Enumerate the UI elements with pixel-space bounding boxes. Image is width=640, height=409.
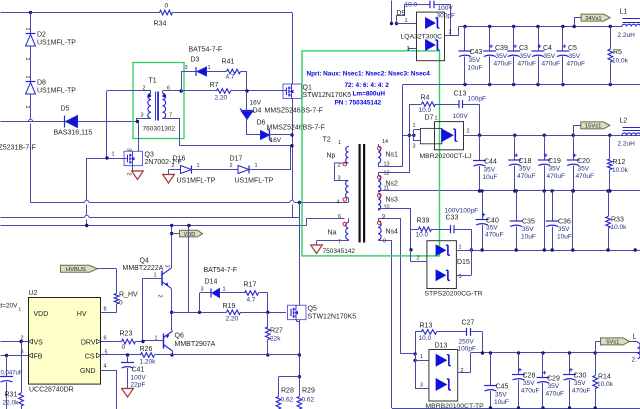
rectifier D15 STPS20200CG-TR — [427, 241, 457, 289]
IC U2 UCC28740DR — [29, 298, 101, 385]
wire 24Vs1 flag lead — [574, 17, 581, 19]
svg-text:1: 1 — [420, 354, 423, 360]
svg-text:10.0k: 10.0k — [612, 167, 629, 174]
capacitor C39 — [489, 27, 491, 52]
svg-text:470uF: 470uF — [547, 173, 565, 180]
wire Q1 source down — [292, 99, 294, 201]
svg-text:R33: R33 — [611, 217, 624, 224]
svg-text:3: 3 — [141, 113, 144, 119]
svg-text:470uF: 470uF — [572, 388, 590, 395]
svg-text:R27: R27 — [270, 328, 283, 335]
svg-text:14: 14 — [382, 139, 388, 145]
wire Q6 base — [143, 340, 164, 342]
svg-text:35V: 35V — [469, 57, 481, 64]
resistor R17 — [220, 292, 245, 294]
wire snubber cap to output — [434, 5, 451, 36]
svg-text:10.0k: 10.0k — [597, 381, 614, 388]
svg-text:BAS316,115: BAS316,115 — [54, 130, 93, 137]
svg-text:8: 8 — [383, 239, 386, 245]
svg-text:4: 4 — [104, 364, 107, 370]
svg-text:1: 1 — [338, 140, 341, 146]
wire Q3 source to ground — [132, 166, 134, 171]
svg-text:L1: L1 — [620, 9, 628, 16]
node 10V return junctions — [470, 248, 473, 251]
wire Q3 gate line — [87, 158, 128, 160]
svg-text:6: 6 — [104, 336, 107, 342]
resistor R39 — [411, 229, 419, 231]
capacitor C30 — [569, 353, 571, 375]
svg-text:C5: C5 — [568, 45, 577, 52]
resistor R31 — [21, 342, 23, 394]
wire CS line — [101, 354, 141, 356]
svg-text:35V: 35V — [523, 380, 535, 387]
node rail A junction — [298, 201, 301, 204]
svg-text:16V: 16V — [270, 137, 282, 144]
transistor Q6 MMBT2907A — [163, 334, 165, 349]
wire D9 pin3 stub — [408, 48, 417, 50]
capacitor C4 — [538, 27, 540, 52]
transistor Q4 MMBT2222A — [171, 266, 173, 269]
svg-text:0,047uF: 0,047uF — [1, 371, 23, 377]
svg-text:C20: C20 — [577, 158, 590, 165]
node FB divider junction — [5, 354, 8, 357]
svg-text:1: 1 — [197, 163, 200, 169]
wire snubber cap branch — [397, 5, 431, 24]
wire Q3 drain riser — [138, 122, 140, 152]
wire snubber resistor lead from top — [391, 1, 393, 24]
wire T2 pin13 to 24V return — [378, 163, 380, 167]
net flag HVBUS — [61, 265, 98, 272]
svg-text:Ns4: Ns4 — [386, 229, 399, 236]
svg-text:C33: C33 — [446, 215, 459, 222]
svg-text:Q5: Q5 — [308, 306, 317, 313]
capacitor C20 — [573, 135, 575, 160]
wire D9 pin2 output — [445, 35, 459, 37]
node 5V rail junctions — [481, 351, 484, 354]
svg-text:35V: 35V — [578, 166, 590, 173]
node STPS anode junction — [409, 248, 412, 251]
capacitor C36 — [552, 191, 554, 221]
svg-text:3: 3 — [420, 383, 423, 389]
svg-text:R29: R29 — [302, 388, 315, 395]
svg-text:35V: 35V — [520, 53, 532, 60]
svg-text:3: 3 — [21, 350, 24, 356]
wire C13 to 15V rail — [463, 104, 480, 106]
svg-text:VDD: VDD — [34, 311, 49, 318]
svg-text:470uF: 470uF — [546, 391, 564, 398]
resistor R13 — [415, 331, 421, 333]
transistor Q1 STW12N170K5 — [283, 84, 302, 99]
node bottom rail junctions — [489, 406, 492, 409]
wire MBR pin2 out — [464, 135, 480, 137]
svg-text:35V: 35V — [548, 383, 560, 390]
wire R17 riser right — [267, 293, 269, 312]
svg-text:35V: 35V — [558, 226, 570, 233]
svg-text:15Vs1: 15Vs1 — [585, 124, 601, 130]
svg-text:2.20: 2.20 — [215, 95, 228, 102]
svg-text:C27: C27 — [462, 320, 475, 327]
wire 5V rail — [471, 352, 640, 354]
wire VS input — [1, 341, 29, 343]
wire rail link to Q5 drain — [299, 203, 301, 306]
svg-text:35V: 35V — [496, 53, 508, 60]
svg-text:C36: C36 — [558, 219, 571, 226]
inductor L2 — [622, 133, 640, 135]
svg-text:VDD: VDD — [184, 232, 196, 238]
svg-text:D16: D16 — [173, 156, 186, 163]
node Q1 source primary junction — [290, 144, 293, 147]
svg-text:L2: L2 — [620, 118, 628, 125]
svg-text:R17: R17 — [244, 282, 257, 289]
node D13 anode junctions — [413, 352, 416, 355]
svg-text:R19: R19 — [223, 303, 236, 310]
svg-text:4.7: 4.7 — [247, 297, 256, 304]
svg-text:22.0k: 22.0k — [3, 400, 20, 407]
svg-text:2: 2 — [172, 163, 175, 169]
resistor R4 — [409, 104, 421, 106]
resistor R19 — [227, 310, 241, 315]
svg-text:C41: C41 — [132, 367, 145, 374]
wire D16-D17 — [192, 169, 239, 171]
resistor R41 — [207, 71, 227, 73]
node rail C junction — [187, 224, 190, 227]
wire gate drive line — [172, 312, 227, 314]
svg-text:1: 1 — [154, 273, 157, 279]
svg-text:72: 4: 6: 4: 4: 2: 72: 4: 6: 4: 4: 2 — [345, 82, 390, 89]
wire T2 pin7 to ground — [348, 240, 350, 242]
wire HV bus lead — [98, 268, 117, 270]
svg-text:0.62: 0.62 — [302, 397, 315, 404]
svg-text:100V: 100V — [453, 113, 469, 120]
svg-text:0.62: 0.62 — [281, 397, 294, 404]
svg-text:1.20k: 1.20k — [140, 359, 157, 366]
svg-text:MBR20200CT-LJ: MBR20200CT-LJ — [420, 153, 472, 160]
svg-text:Na: Na — [328, 230, 337, 237]
zener diode D4 16V — [240, 109, 254, 113]
svg-text:470uF: 470uF — [517, 173, 535, 180]
capacitor C43 — [464, 27, 466, 52]
capacitor C40 — [482, 191, 484, 220]
svg-text:10: 10 — [384, 205, 390, 211]
svg-text:US1MFL-TP: US1MFL-TP — [235, 178, 274, 185]
svg-text:1: 1 — [24, 76, 30, 79]
diode D8 — [26, 81, 36, 83]
node VDD flag tap — [170, 232, 173, 235]
wire D6 cathode to source — [270, 134, 293, 136]
wire D4 to D6 — [246, 119, 248, 135]
svg-text:35V: 35V — [495, 392, 507, 399]
node gate node junction — [266, 311, 269, 314]
wire D14 branch riser left — [199, 293, 201, 312]
svg-text:3: 3 — [201, 287, 204, 293]
svg-text:R41: R41 — [222, 59, 235, 66]
svg-text:R12: R12 — [613, 159, 626, 166]
capacitor C28 — [518, 353, 520, 375]
svg-text:2.: 2. — [632, 357, 638, 364]
svg-text:C44: C44 — [484, 159, 497, 166]
svg-text:R31: R31 — [5, 392, 18, 399]
svg-text:1: 1 — [112, 152, 115, 158]
svg-text:12: 12 — [384, 171, 390, 177]
wire T2 pin8 to bottom rail — [378, 239, 380, 242]
wire C27 to 5V rail — [471, 331, 483, 333]
svg-text:470uF: 470uF — [485, 232, 503, 239]
resistor R27 — [267, 312, 269, 327]
wire ground rail B — [1, 217, 85, 219]
svg-text:0: 0 — [122, 344, 126, 351]
svg-text:760301302: 760301302 — [143, 126, 176, 133]
svg-text:D9: D9 — [397, 10, 406, 17]
svg-text:10uF: 10uF — [483, 174, 498, 181]
capacitor C29 — [542, 353, 544, 378]
svg-text:Q4: Q4 — [140, 258, 149, 265]
svg-text:3: 3 — [126, 148, 132, 151]
green highlight net loop — [302, 51, 440, 256]
svg-text:35V: 35V — [519, 166, 531, 173]
node rail C junction VDD — [170, 224, 173, 227]
svg-text:R28: R28 — [281, 388, 294, 395]
svg-text:HVBUS: HVBUS — [66, 267, 86, 273]
svg-text:1: 1 — [255, 163, 258, 169]
svg-text:R5: R5 — [613, 49, 622, 56]
wire T1 pin6 to node — [162, 91, 164, 93]
node T1 pin3 / Q3 drain junction — [136, 120, 139, 123]
svg-text:DRV: DRV — [81, 340, 96, 347]
wire R13 riser — [415, 332, 417, 354]
capacitor C33 — [450, 225, 452, 233]
svg-text:470uF: 470uF — [542, 61, 560, 68]
net flag 5Vs1 — [601, 338, 630, 345]
svg-text:C43: C43 — [470, 49, 483, 56]
svg-text:Q3: Q3 — [145, 152, 154, 159]
svg-text:PN : 750345142: PN : 750345142 — [335, 100, 382, 107]
svg-text:2: 2 — [449, 30, 452, 36]
wire current sense node — [299, 355, 301, 377]
wire Q5 source down — [296, 320, 298, 322]
svg-text:4: 4 — [337, 200, 340, 206]
svg-text:Np: Np — [327, 153, 336, 160]
svg-text:35V: 35V — [522, 226, 534, 233]
svg-text:U2: U2 — [29, 290, 38, 297]
svg-text:2: 2 — [126, 173, 132, 176]
node D9 pin1 junction — [390, 22, 393, 25]
svg-text:35V: 35V — [544, 53, 556, 60]
wire D13 pin2 out — [458, 372, 471, 374]
svg-text:Q1: Q1 — [303, 85, 312, 92]
svg-text:2: 2 — [24, 106, 30, 109]
capacitor C41 — [126, 353, 129, 356]
svg-text:R23: R23 — [120, 331, 133, 338]
node 15V rail junctions — [478, 134, 481, 137]
wire bottom rail — [392, 408, 640, 409]
wire C33 to cathode node — [454, 229, 471, 231]
node 24V rail junctions — [463, 25, 466, 28]
svg-text:2.2uH: 2.2uH — [618, 32, 636, 39]
svg-text:US1MFL-TP: US1MFL-TP — [37, 40, 76, 47]
svg-text:STPS20200CG-TR: STPS20200CG-TR — [425, 291, 483, 298]
capacitor C13 — [458, 100, 460, 108]
svg-text:1: 1 — [208, 65, 211, 71]
wire T2 pin11 rail — [378, 191, 380, 192]
wire ground rail A — [31, 202, 85, 204]
svg-text:C4: C4 — [543, 45, 552, 52]
capacitor FB 0.047uF — [6, 356, 8, 377]
svg-text:1: 1 — [435, 116, 438, 122]
svg-text:100V100pF: 100V100pF — [445, 208, 479, 215]
resistor R28 — [278, 377, 280, 397]
node sense resistor junction — [298, 375, 301, 378]
svg-text:MMSZ5246BS-7-F: MMSZ5246BS-7-F — [267, 125, 325, 132]
svg-text:470uF: 470uF — [518, 61, 536, 68]
svg-text:R26: R26 — [140, 346, 153, 353]
svg-text:10.0: 10.0 — [416, 232, 429, 239]
svg-text:UCC28740DR: UCC28740DR — [29, 387, 74, 394]
svg-text:R39: R39 — [417, 218, 430, 225]
svg-text:R34: R34 — [154, 21, 167, 28]
svg-text:R13: R13 — [420, 323, 433, 330]
svg-text:D14: D14 — [205, 279, 218, 286]
svg-text:C13: C13 — [454, 91, 467, 98]
resistor R12 — [609, 135, 611, 159]
wire riser pin6 node to D3 line — [181, 72, 183, 92]
node gate drive junction — [245, 89, 248, 92]
resistor R23 — [122, 339, 136, 344]
pin arrows U2 — [29, 339, 33, 344]
svg-text:Z5231B-7-F: Z5231B-7-F — [0, 145, 36, 152]
wire D17 cathode up to source node — [249, 169, 291, 171]
svg-text:VS: VS — [34, 340, 44, 347]
svg-text:CS: CS — [85, 354, 95, 361]
svg-text:10uF: 10uF — [468, 65, 483, 72]
wire link B 10V — [572, 191, 574, 250]
wire 24V rail — [459, 26, 622, 28]
svg-text:MMBT2907A: MMBT2907A — [175, 341, 216, 348]
wire T2 pin12 to MBR anode — [378, 172, 409, 174]
svg-text:250V: 250V — [459, 339, 475, 346]
diode D14 BAT54 — [210, 289, 212, 298]
node D14 branch left — [198, 311, 201, 314]
node 15V return junctions — [478, 189, 481, 192]
svg-text:10.0k: 10.0k — [612, 58, 629, 65]
svg-text:R4: R4 — [421, 95, 430, 102]
transformer T2 core — [359, 144, 361, 243]
node Q3 gate junction — [105, 156, 108, 159]
node DRV junction — [141, 340, 144, 343]
resistor R_HV — [114, 294, 119, 305]
svg-text:0: 0 — [165, 3, 169, 10]
wire STPS pin2 anode lead — [410, 250, 412, 262]
wire 24V return rail — [403, 84, 640, 86]
wire D13 feed link — [401, 353, 415, 355]
diode D16 — [181, 166, 192, 174]
svg-text:35V: 35V — [549, 166, 561, 173]
svg-text:10.0: 10.0 — [419, 107, 432, 114]
svg-text:100pF: 100pF — [468, 96, 486, 103]
svg-text:1: 1 — [459, 245, 462, 251]
svg-text:470uF: 470uF — [567, 61, 585, 68]
transformer T2 secondary Ns3 — [378, 194, 381, 211]
wire DRV line — [101, 341, 122, 343]
svg-text:22pF: 22pF — [131, 382, 146, 389]
ground below C41 — [122, 388, 134, 390]
svg-text:HV: HV — [77, 311, 87, 318]
svg-text:C39: C39 — [495, 45, 508, 52]
node drive output junction — [170, 311, 173, 314]
svg-text:1: 1 — [24, 28, 30, 31]
svg-text:470uF: 470uF — [521, 388, 539, 395]
capacitor C44 — [479, 135, 481, 160]
svg-text:10uF: 10uF — [521, 234, 536, 241]
svg-text:STW12N170K5: STW12N170K5 — [308, 314, 357, 321]
svg-text:C19: C19 — [548, 158, 561, 165]
resistor R5 — [610, 27, 612, 50]
svg-text:8: 8 — [104, 307, 107, 313]
svg-text:D17: D17 — [230, 156, 243, 163]
svg-text:C45: C45 — [496, 384, 509, 391]
svg-text:MMSZ5246BS-7-F: MMSZ5246BS-7-F — [265, 108, 323, 115]
svg-text:D3: D3 — [191, 57, 200, 64]
node 24V return junctions — [463, 83, 466, 86]
svg-text:Ns3: Ns3 — [386, 197, 399, 204]
svg-text:35V: 35V — [569, 53, 581, 60]
svg-text:3: 3 — [413, 144, 416, 150]
ground below D16 — [163, 174, 175, 176]
svg-text:100V: 100V — [131, 375, 147, 382]
capacitor C19 — [544, 135, 546, 160]
svg-text:T1: T1 — [149, 78, 157, 85]
resistor R26 — [141, 353, 155, 358]
svg-text:100pF: 100pF — [458, 346, 476, 353]
svg-text:2: 2 — [417, 256, 420, 262]
svg-text:2.20: 2.20 — [226, 316, 239, 323]
wire T1 pin2 to left vertical — [150, 91, 152, 93]
wire 10V return rail — [471, 250, 640, 252]
svg-text:10uF: 10uF — [557, 234, 572, 241]
diode D3 BAT54 — [195, 67, 197, 76]
wire ground rail C — [1, 225, 307, 227]
svg-text:35V: 35V — [486, 225, 498, 232]
transistor Q5 STW12N170K5 — [288, 305, 307, 320]
ground below Q3 — [132, 170, 144, 172]
diode D17 — [238, 166, 249, 174]
net flag VDD — [180, 230, 203, 237]
svg-text:C29: C29 — [547, 376, 560, 383]
svg-text:3: 3 — [164, 265, 170, 268]
svg-text:BAT54-7-F: BAT54-7-F — [189, 47, 223, 54]
wire Q4 base riser — [142, 278, 144, 341]
svg-text:750345142: 750345142 — [323, 248, 356, 255]
svg-text:C35: C35 — [522, 219, 535, 226]
svg-text:10uF: 10uF — [494, 399, 509, 406]
svg-text:1: 1 — [413, 123, 416, 129]
transistor Q3 2N7002 — [124, 151, 143, 166]
svg-text:C28: C28 — [523, 373, 536, 380]
resistor R14 — [595, 353, 597, 376]
capacitor C35 — [516, 191, 518, 221]
capacitor C18 — [514, 135, 516, 160]
wire 15Vs1 flag lead — [573, 125, 581, 127]
svg-text:3: 3 — [459, 274, 462, 280]
svg-text:470uF: 470uF — [576, 173, 594, 180]
wire link A 10V — [544, 191, 546, 250]
resistor R29 — [299, 377, 301, 397]
wire anode node link — [403, 135, 414, 137]
capacitor C45 — [490, 353, 492, 386]
net flag 24Vs1 — [581, 14, 610, 21]
wire STPS pin1 to rail — [456, 250, 471, 252]
svg-text:MMBT2222A: MMBT2222A — [123, 265, 164, 272]
svg-text:D2: D2 — [37, 32, 46, 39]
